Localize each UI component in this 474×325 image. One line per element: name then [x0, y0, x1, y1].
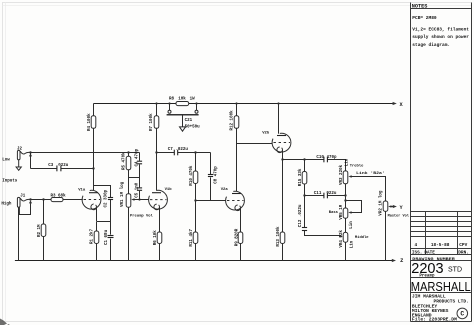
- svg-text:J1: J1: [20, 194, 26, 198]
- wire: treble bottom to bass top: [345, 184, 347, 208]
- svg-text:R4 100k: R4 100k: [87, 113, 92, 131]
- wire: Low jack drop to C3: [30, 153, 32, 169]
- svg-text:Z: Z: [400, 258, 403, 264]
- resistor R3 68k: [31, 194, 83, 202]
- tube V1b: [149, 187, 173, 232]
- svg-text:STD: STD: [448, 267, 462, 274]
- svg-text:C4 470p: C4 470p: [136, 148, 140, 166]
- wire: R10/C8 node to V2a grid: [194, 199, 226, 201]
- capacitor C4 470p: [129, 148, 143, 177]
- svg-text:File: 2203PRE.DM: File: 2203PRE.DM: [412, 317, 457, 323]
- potentiometer VR5 1M Lin (Bass): [329, 194, 362, 229]
- svg-text:Treble: Treble: [350, 164, 364, 169]
- svg-text:C21: C21: [185, 119, 193, 123]
- resistor R11 4k7: [189, 201, 198, 261]
- potentiometer VR1 1M log (Preamp Vol): [120, 181, 153, 260]
- resistor R6 10k (V1b cathode): [153, 230, 162, 261]
- title block: [411, 3, 472, 323]
- svg-text:Bass: Bass: [329, 211, 339, 215]
- svg-text:V1b: V1b: [165, 187, 173, 192]
- svg-text:VR2 1M log: VR2 1M log: [379, 190, 384, 216]
- svg-text:C8 470p: C8 470p: [214, 166, 218, 184]
- svg-text:DRN.: DRN.: [458, 250, 469, 255]
- svg-text:V1a: V1a: [78, 188, 86, 192]
- svg-text:R15 33k: R15 33k: [298, 168, 303, 186]
- svg-text:Inputs: Inputs: [2, 179, 18, 183]
- svg-text:Middle: Middle: [355, 235, 369, 240]
- capacitor C21 50+50u with ground arrow: [167, 104, 201, 132]
- supply rail (HT) to X: [94, 102, 404, 108]
- resistor R5 470k: [121, 151, 130, 193]
- capacitor C11 .022u (node B to treble bottom): [303, 192, 345, 199]
- potentiometer VR2 1M log (Master Vol) to Y: [379, 190, 410, 260]
- svg-text:stage diagram.: stage diagram.: [412, 42, 450, 48]
- capacitor C3 .022u: [31, 164, 95, 172]
- svg-text:Lin: Lin: [349, 221, 354, 229]
- tube V1a: [71, 188, 101, 221]
- capacitor C1 68u: [105, 222, 113, 261]
- svg-text:R7 100k: R7 100k: [149, 113, 154, 131]
- svg-text:PRODUCTS LTD.: PRODUCTS LTD.: [434, 298, 469, 304]
- svg-text:18-5-88: 18-5-88: [431, 243, 450, 248]
- svg-text:50+50u: 50+50u: [185, 126, 201, 130]
- svg-text:4: 4: [415, 243, 418, 248]
- svg-text:VR4 22k: VR4 22k: [339, 230, 344, 248]
- svg-text:R2 1M: R2 1M: [38, 224, 42, 237]
- svg-text:MARSHALL: MARSHALL: [411, 279, 471, 294]
- svg-text:C1 68u: C1 68u: [105, 229, 109, 245]
- svg-text:Low: Low: [2, 159, 10, 163]
- resistor R9 820R (V2a cathode): [235, 228, 243, 260]
- wire: V2a anode to V2b grid: [237, 143, 273, 145]
- wire: Low jack tip to R5/C4 node: [31, 152, 140, 154]
- svg-text:High: High: [1, 202, 12, 207]
- svg-text:R12 100k: R12 100k: [229, 110, 234, 131]
- tube V2b (cathode follower): [262, 104, 291, 160]
- capacitor C2 330p (anode to cathode node): [94, 186, 114, 222]
- svg-text:V2a: V2a: [221, 188, 229, 192]
- svg-text:NOTES: NOTES: [412, 3, 428, 9]
- tube V2a: [221, 188, 245, 232]
- svg-text:R5 470k: R5 470k: [121, 152, 126, 170]
- svg-text:10k: 10k: [178, 97, 186, 102]
- svg-text:V2b: V2b: [262, 131, 270, 136]
- potentiometer VR4 22k Lin (Middle): [339, 218, 369, 260]
- capacitor C10 470p: [316, 156, 337, 162]
- svg-text:C5 1n0: C5 1n0: [136, 182, 140, 198]
- wire: V2b cathode to tone stack: [281, 158, 345, 160]
- svg-text:R8: R8: [169, 98, 175, 102]
- svg-text:R10 470k: R10 470k: [189, 165, 194, 186]
- capacitor C8 470p: [208, 153, 219, 201]
- wire: V1a cathode tie: [97, 221, 111, 223]
- svg-text:Lin: Lin: [349, 240, 354, 248]
- svg-text:VR3 220k: VR3 220k: [339, 164, 344, 185]
- svg-text:C2 330p: C2 330p: [104, 189, 108, 207]
- svg-text:R11 4k7: R11 4k7: [189, 229, 194, 247]
- resistor R4 100k (V1a anode): [87, 104, 96, 193]
- svg-text:C: C: [460, 311, 464, 318]
- svg-text:CPV: CPV: [459, 243, 467, 248]
- svg-text:R6 10k: R6 10k: [153, 230, 158, 246]
- potentiometer VR3 220k Lin (Treble): [339, 158, 364, 185]
- svg-text:ISS.: ISS.: [412, 250, 423, 255]
- svg-text:supply shown on power: supply shown on power: [412, 34, 469, 40]
- jack J2 (Low input): [2, 148, 32, 171]
- svg-text:R13 100k: R13 100k: [276, 226, 281, 247]
- svg-text:Master Vol: Master Vol: [388, 214, 410, 219]
- resistor R15 33k (slope): [298, 158, 307, 195]
- svg-text:Preamp Vol: Preamp Vol: [130, 214, 154, 219]
- resistor R10 470k: [189, 151, 198, 200]
- resistor R7 100k (V1b anode): [149, 104, 159, 193]
- svg-text:DATE: DATE: [424, 250, 435, 255]
- svg-text:V1,2= ECC83, filament: V1,2= ECC83, filament: [412, 27, 469, 33]
- svg-text:1W: 1W: [190, 98, 196, 102]
- jack J1 (High input): [1, 194, 32, 260]
- resistor R8 10k 1W (in rail): [169, 97, 195, 106]
- capacitor C12 .022u (node B to middle wiper): [299, 196, 341, 237]
- resistor R13 100k (V2b cathode load): [276, 160, 285, 261]
- ground rail to Z: [15, 258, 403, 264]
- svg-text:VR1 1M log: VR1 1M log: [120, 181, 125, 207]
- svg-text:PCB= 2M80: PCB= 2M80: [412, 15, 437, 21]
- svg-text:R1 2k7: R1 2k7: [90, 228, 95, 244]
- wire: treble wiper link to master vol: [348, 171, 385, 201]
- svg-text:C12 .022u: C12 .022u: [299, 204, 303, 227]
- resistor R12 100k (V2a anode): [229, 104, 238, 194]
- capacitor C5 1n0: [136, 178, 142, 200]
- svg-text:VR5 1M: VR5 1M: [340, 204, 344, 220]
- svg-text:Link 'B2a': Link 'B2a': [356, 171, 385, 176]
- resistor R1 2k7: [90, 222, 99, 261]
- capacitor C7 .022u: [157, 148, 211, 156]
- svg-text:R9 820R: R9 820R: [235, 228, 239, 246]
- resistor R2 1M: [38, 200, 46, 261]
